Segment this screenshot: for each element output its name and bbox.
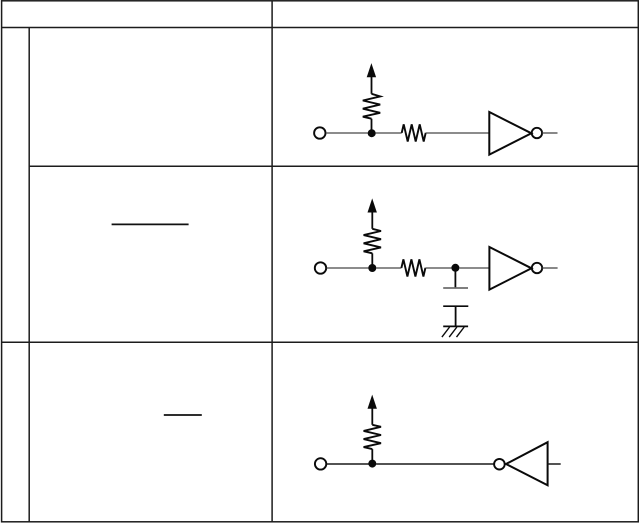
wire junction A to series resistor (376, 132, 402, 134)
wire node C down to capacitor C1 (454, 268, 456, 287)
wire junction A up to pull-up resistor (371, 119, 373, 134)
wire node C to inverter U2 (459, 267, 489, 269)
wire resistor R1 to power arrow (371, 77, 373, 94)
wire input to junction B (327, 267, 369, 269)
wire capacitor C1 to ground (455, 306, 457, 326)
ground (442, 326, 468, 337)
pull-up resistor R5 (364, 425, 381, 449)
wire junction D up to pull-up resistor (371, 449, 373, 464)
inverter U2 (489, 247, 542, 290)
wire output of U1 (542, 132, 557, 134)
wire input to junction D (327, 463, 369, 465)
wire output side of U3 (548, 463, 561, 465)
power supply arrow (VCC) (367, 63, 376, 77)
input terminal T1 (314, 127, 325, 138)
series resistor R2 (402, 124, 426, 141)
wire input to junction A (326, 132, 368, 134)
wire resistor R4 to node C (425, 267, 452, 269)
signal overline (row 2 cell) (112, 223, 189, 225)
node D (junction dot) (368, 460, 376, 468)
input terminal T3 (315, 458, 326, 469)
capacitor C1 (443, 288, 468, 306)
inverter U1 (489, 112, 542, 155)
power supply arrow (VCC) (368, 395, 377, 409)
node C (junction dot) (451, 264, 459, 272)
signal overline (row 3 cell) (164, 414, 202, 416)
wire output of U2 (542, 267, 557, 269)
node A (junction dot) (368, 129, 376, 137)
series resistor R4 (401, 259, 425, 276)
power supply arrow (VCC) (368, 198, 377, 212)
pull-up resistor R3 (364, 229, 381, 254)
wire resistor R5 to power arrow (371, 408, 373, 425)
open-drain output buffer U3 (bubble on left) (494, 442, 547, 485)
wire junction B to series resistor (376, 267, 401, 269)
wire junction D to output buffer U3 (376, 463, 494, 465)
input terminal T2 (315, 262, 326, 273)
wire resistor R3 to power arrow (371, 212, 373, 229)
pull-up resistor R1 (363, 94, 380, 119)
wire junction B up to pull-up resistor (371, 253, 373, 268)
wire resistor R2 to inverter U1 (426, 132, 490, 134)
node B (junction dot) (368, 264, 376, 272)
